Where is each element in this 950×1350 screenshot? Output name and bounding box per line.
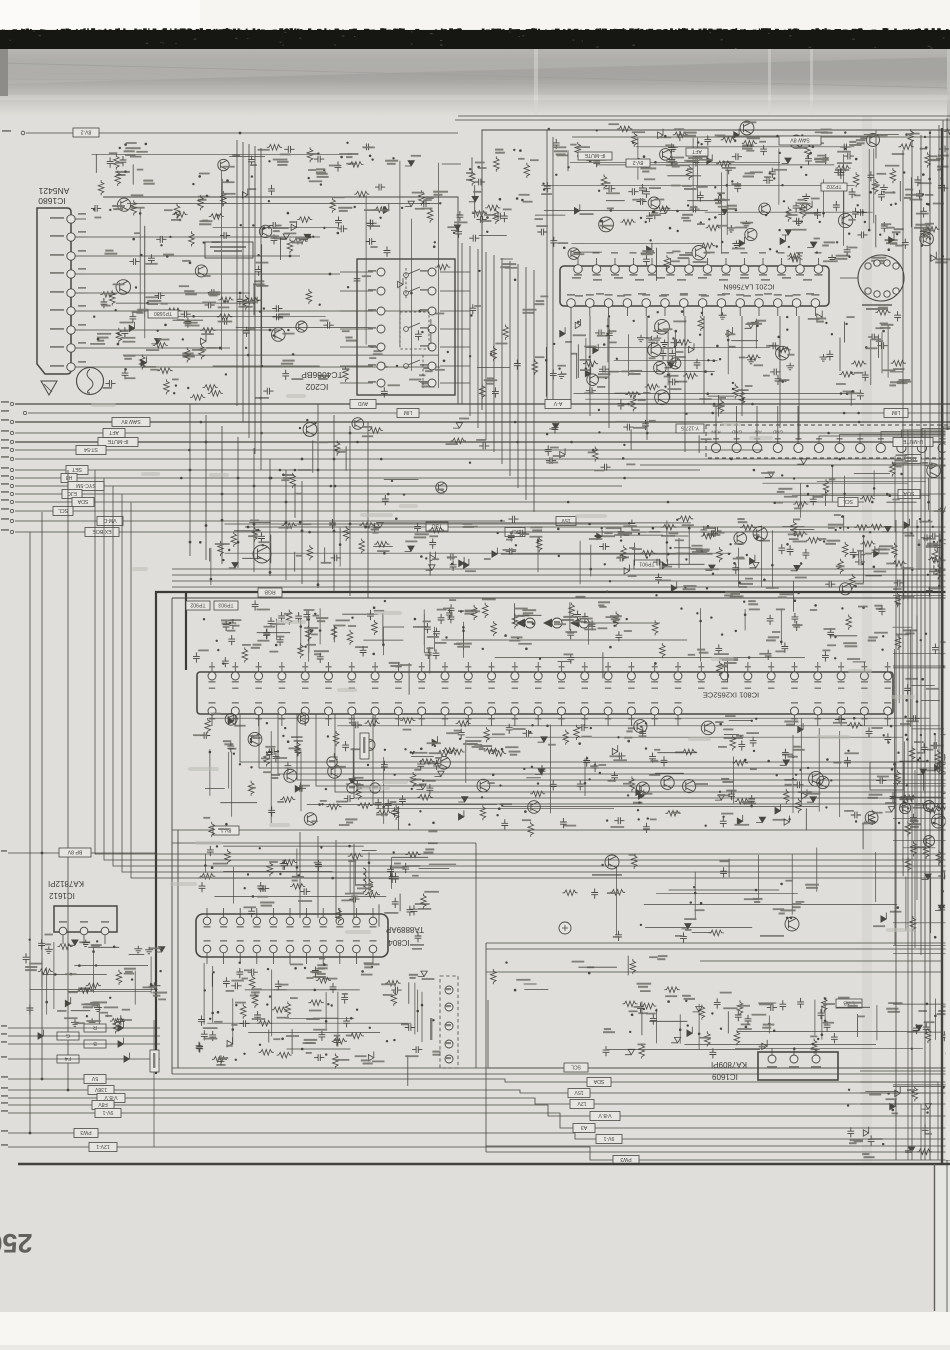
pin L5 IC202	[377, 343, 385, 351]
pin bottom 27 IC801	[814, 707, 822, 715]
pin L4 IC202	[377, 325, 385, 333]
bus right label SCL	[838, 498, 858, 507]
component cluster above middle 1	[199, 516, 943, 576]
bus wire y486	[15, 485, 622, 487]
pin bottom 12 IC201	[774, 299, 783, 308]
pin bottom 11 IC801	[441, 707, 449, 715]
bus wire y413	[28, 412, 950, 414]
bus left tick y422	[10, 420, 13, 423]
cap C8304	[415, 932, 422, 942]
component cluster below IC801	[193, 713, 950, 850]
bus left tick y459	[10, 457, 13, 460]
pin R3 IC202	[428, 307, 436, 315]
bus junction dots	[627, 403, 630, 406]
pin top 10 IC801	[418, 672, 426, 680]
right edge stubs	[893, 782, 950, 784]
component cluster below IC201	[550, 307, 911, 417]
wire 8V-2 rail	[26, 132, 458, 134]
pin bottom 4 IC801	[278, 707, 286, 715]
diode D418	[38, 1030, 43, 1040]
connector Y/C pin 5	[445, 1055, 453, 1063]
pin top 3 IC201	[611, 265, 620, 274]
component cluster bottom mid parts	[563, 854, 950, 943]
signal arrows 15 16 17	[516, 619, 525, 628]
connector pin 3	[753, 443, 762, 452]
label BP 8V	[59, 848, 91, 857]
pin bottom 8 IC804	[319, 945, 327, 953]
pin top 4 IC201	[629, 265, 638, 274]
component cluster IC801 top pin parts	[193, 596, 888, 695]
component cluster around IC1609	[603, 992, 950, 1059]
bus label SDA	[72, 498, 94, 507]
bus left tick y532	[10, 530, 13, 533]
top white strip	[0, 0, 950, 29]
transistor Q412	[785, 917, 799, 931]
transistor Q609	[605, 855, 619, 869]
wire RGB y1044	[8, 1043, 160, 1045]
pin top 8 IC804	[319, 917, 327, 925]
component cluster above IC804	[199, 842, 457, 926]
bus label AVD	[350, 400, 376, 409]
rail 9V-1	[8, 1113, 950, 1128]
label B box	[84, 1040, 106, 1048]
right strip extra verticals	[895, 520, 897, 1160]
pin 3 IC1609	[812, 1055, 820, 1063]
pin top 2 IC804	[220, 917, 228, 925]
bus left tick y404	[10, 402, 13, 405]
wire grid below IC801	[209, 717, 940, 824]
connector Y/C pin 2	[445, 1003, 453, 1011]
pin top 18 IC801	[604, 672, 612, 680]
bus right label 15V	[556, 517, 576, 526]
connector pin 9	[876, 443, 885, 452]
pin bottom 9 IC804	[336, 945, 344, 953]
op-amp IC1680 body	[37, 208, 71, 374]
pin top 13 IC201	[796, 265, 805, 274]
connector pin 11	[917, 443, 926, 452]
bus left tick y470	[10, 468, 13, 471]
bus wire y459	[15, 458, 950, 460]
pin top 10 IC804	[353, 917, 361, 925]
bottom right vertical rule	[934, 1164, 936, 1311]
right edge vertical wires	[902, 150, 904, 862]
circled node 14	[347, 783, 357, 793]
label TP202	[821, 183, 847, 191]
IC201 bottom risers	[570, 316, 572, 404]
pin top 16 IC801	[558, 672, 566, 680]
label F4 box	[57, 1055, 79, 1063]
connector pin 1	[711, 443, 720, 452]
label IF-MUTE	[578, 152, 612, 160]
coil L803	[363, 868, 366, 892]
pin bottom 6 IC804	[286, 945, 294, 953]
wire grid IC801 pins top	[277, 608, 805, 661]
component cluster IC1680 upper left	[96, 142, 265, 219]
diode D419	[118, 1022, 123, 1032]
pin bottom 8 IC801	[371, 707, 379, 715]
bus label VM-D	[97, 517, 123, 526]
vertical label 12V-1	[150, 1050, 159, 1072]
connector pin 12	[938, 443, 947, 452]
video IC801 IX2652CE body	[197, 672, 893, 714]
connector Y/C dashed	[440, 976, 458, 1068]
long horizontals mid	[172, 568, 950, 570]
bus label ST-54	[76, 446, 106, 455]
wire bundle E left risers	[95, 470, 950, 854]
pin bottom 1 IC801	[208, 707, 216, 715]
pin bottom 19 IC801	[627, 707, 635, 715]
pin top 30 IC801	[884, 672, 892, 680]
right rail staircase	[860, 1071, 947, 1160]
pin bottom 3 IC201	[604, 299, 613, 308]
component cluster above IC202	[266, 149, 565, 260]
pin bottom 2 IC201	[586, 299, 595, 308]
pin top 7 IC801	[348, 672, 356, 680]
pin top 6 IC201	[666, 265, 675, 274]
long vertical x68	[67, 470, 69, 1090]
bus wire y470	[15, 469, 700, 471]
bus wire y450	[15, 449, 763, 451]
pin bottom 10 IC801	[418, 707, 426, 715]
bus TSC wire	[245, 526, 950, 528]
bus label EX BOE	[85, 528, 119, 537]
pin bottom 28 IC801	[837, 707, 845, 715]
bus wire y433	[15, 432, 950, 434]
pin bottom 29 IC801	[860, 707, 868, 715]
bus wire y404	[15, 403, 950, 405]
circled node 13	[327, 757, 337, 767]
pin top 1 IC804	[203, 917, 211, 925]
right column loop box	[870, 762, 904, 790]
pin top 1 IC801	[208, 672, 216, 680]
bus right label U-MUTE	[893, 438, 933, 447]
component cluster IC1680 periphery	[90, 142, 450, 401]
label 8V-2	[73, 128, 99, 137]
rail risers	[488, 1000, 950, 1068]
wire verticals mid	[299, 832, 301, 918]
pin top 25 IC801	[767, 672, 775, 680]
wire grid above IC201	[541, 135, 942, 254]
connector pin 2	[732, 443, 741, 452]
gray scan gradient band	[0, 49, 950, 116]
component cluster IC1609 lower right	[847, 1086, 945, 1158]
bus label EJC	[62, 490, 82, 499]
bottom white strip	[0, 1312, 950, 1345]
pin bottom 4 IC804	[253, 945, 261, 953]
wire grid above middle	[210, 520, 942, 587]
transistor Q601	[253, 545, 271, 563]
right column transistor Q pair	[924, 801, 935, 812]
black header bar	[0, 30, 950, 49]
pin top 3 IC801	[255, 672, 263, 680]
pin R4 IC202	[428, 325, 436, 333]
pin bottom 15 IC801	[534, 707, 542, 715]
pin L1 IC202	[377, 268, 385, 276]
pin L3 IC202	[377, 307, 385, 315]
label RGB	[258, 588, 282, 597]
pin top 5 IC201	[648, 265, 657, 274]
connector pin 6	[814, 443, 823, 452]
connector pin 5	[794, 443, 803, 452]
connector pin 10	[897, 443, 906, 452]
pin top 8 IC201	[703, 265, 712, 274]
bus wire y511	[15, 510, 950, 512]
pin bottom 3 IC801	[255, 707, 263, 715]
pin bottom 13 IC201	[792, 299, 801, 308]
pin top 20 IC801	[651, 672, 659, 680]
bus label IF-MUTE	[98, 438, 138, 447]
component cluster above middle right	[602, 524, 950, 612]
label G box	[57, 1032, 79, 1040]
pin top 2 IC801	[231, 672, 239, 680]
pin bottom 9 IC201	[717, 299, 726, 308]
bus left tick y494	[10, 492, 13, 495]
pin 4 IC1680	[67, 307, 75, 315]
pin top 11 IC804	[369, 917, 377, 925]
pin R2 IC202	[428, 287, 436, 295]
connector riser wires	[715, 406, 717, 443]
label SCL rail	[564, 1063, 588, 1072]
bus wire y422	[15, 421, 950, 423]
component cluster IC1612 periphery	[23, 934, 168, 1034]
component cluster right of IC202	[469, 259, 548, 399]
rail 12V-1	[8, 1147, 950, 1160]
wire BP8V	[8, 852, 59, 854]
connector Y/C pin 4	[445, 1040, 453, 1048]
pin top 24 IC801	[744, 672, 752, 680]
label TP901	[634, 560, 660, 569]
wire top pair right	[458, 115, 950, 117]
frame top-right block	[482, 130, 950, 410]
faint vertical scan streak	[862, 116, 872, 1164]
component cluster above IC201	[541, 121, 950, 281]
rail 5V	[8, 1079, 950, 1082]
pin bottom 14 IC201	[811, 299, 820, 308]
connector GRJ2 dashed outline	[706, 425, 948, 458]
bus wire y532	[15, 531, 442, 533]
pin top 10 IC201	[740, 265, 749, 274]
pin top 3 IC804	[236, 917, 244, 925]
pin 6 IC1680	[67, 270, 75, 278]
bus wire y494	[15, 493, 950, 495]
pin bottom 3 IC804	[236, 945, 244, 953]
connector pin 7	[835, 443, 844, 452]
bus label AFT	[103, 429, 125, 438]
label 8V-1	[213, 826, 239, 835]
pin bottom 5 IC801	[301, 707, 309, 715]
pin bottom 2 IC804	[220, 945, 228, 953]
right column diode	[922, 874, 932, 879]
pin bottom 10 IC804	[353, 945, 361, 953]
pin bottom 11 IC804	[369, 945, 377, 953]
pin 1 IC1609	[768, 1055, 776, 1063]
delay coil T1690	[77, 368, 104, 395]
wire grid bottom mid	[617, 848, 944, 936]
pin bottom 21 IC801	[674, 707, 682, 715]
label SAW 8V	[779, 136, 821, 145]
bottom thick rule	[18, 1163, 950, 1166]
ground symbol IC1680	[41, 381, 57, 395]
wire grid IC1612 parts	[30, 942, 158, 1015]
connector Y/C pin 1	[445, 986, 453, 994]
pin 7 IC1680	[67, 252, 75, 260]
bus right label LIM	[884, 409, 908, 418]
bus right label H5	[905, 455, 921, 464]
frame top-left block	[103, 197, 458, 404]
bus wire y478	[15, 477, 950, 479]
connector Y/C pin 3	[445, 1022, 453, 1030]
middle block border	[172, 598, 950, 1074]
pin bottom 9 IC801	[394, 707, 402, 715]
bus left tick y502	[10, 500, 13, 503]
wire grid below IC804	[204, 963, 423, 1050]
left dark scan blob	[0, 49, 8, 96]
bus label H8	[61, 474, 77, 483]
pin L6 IC202	[377, 362, 385, 370]
pin bottom 20 IC801	[651, 707, 659, 715]
wire grid IC1680 block	[92, 154, 441, 388]
box SYC PNG ADJ	[205, 242, 253, 258]
pin top 1 IC201	[574, 265, 583, 274]
pin top 14 IC801	[511, 672, 519, 680]
bus left tick y450	[10, 448, 13, 451]
rail V-B.V	[8, 1098, 950, 1104]
wire vertical x368	[367, 422, 369, 598]
rail F8V	[8, 1105, 950, 1116]
wire bundle D IC801 outputs	[240, 714, 950, 762]
chroma IC804 TA8889AP body	[196, 914, 388, 957]
pin bottom 7 IC804	[303, 945, 311, 953]
diode D201	[782, 158, 792, 163]
pin 5 IC1680	[67, 289, 75, 297]
pin bottom 18 IC801	[604, 707, 612, 715]
pin L2 IC202	[377, 287, 385, 295]
component cluster right strip parts	[890, 543, 950, 877]
pin top 12 IC201	[777, 265, 786, 274]
pin bottom 10 IC201	[736, 299, 745, 308]
pin bottom 5 IC201	[642, 299, 651, 308]
label 8V-2b	[626, 159, 650, 167]
thick RGB wire	[156, 592, 950, 1074]
long vertical x30	[29, 532, 31, 1133]
component cluster bus zone parts left	[281, 418, 489, 518]
circled node 15	[370, 783, 380, 793]
component cluster IC1680 inner left	[91, 205, 266, 390]
pin R1 IC202	[428, 268, 436, 276]
wire bundle C bus-to-middle verticals	[189, 404, 191, 556]
faint scan ghosts	[91, 394, 915, 934]
diode D601	[405, 546, 415, 551]
bus right label SCP	[505, 528, 525, 537]
connector pin 8	[856, 443, 865, 452]
bus left tick y433	[10, 431, 13, 434]
pin top 5 IC801	[301, 672, 309, 680]
pin top 17 IC801	[581, 672, 589, 680]
bus right label SOA	[898, 490, 920, 499]
pin bottom 16 IC801	[558, 707, 566, 715]
rail PW3	[8, 1133, 950, 1139]
pin top 14 IC201	[814, 265, 823, 274]
pin L7 IC202	[377, 379, 385, 387]
pin bottom 8 IC201	[698, 299, 707, 308]
pin R5 IC202	[428, 343, 436, 351]
pin top 4 IC804	[253, 917, 261, 925]
diode D417	[118, 1038, 123, 1048]
pin top 11 IC201	[759, 265, 768, 274]
connector pin 4	[773, 443, 782, 452]
pin 2 IC1609	[790, 1055, 798, 1063]
pin 1 IC1680	[67, 363, 75, 371]
pin bottom 2 IC801	[231, 707, 239, 715]
label Y-127/5	[676, 424, 704, 433]
dashed switch box IC202	[400, 312, 429, 349]
diode D410	[430, 552, 435, 562]
bus left tick y486	[10, 484, 13, 487]
pin R7 IC202	[428, 379, 436, 387]
pin 3 IC1612	[101, 927, 109, 935]
wire grid IC1609 parts	[607, 999, 937, 1050]
bus wire y502	[15, 501, 864, 503]
pin top 6 IC804	[286, 917, 294, 925]
bus label SAW 8V	[112, 418, 150, 427]
pin top 7 IC201	[685, 265, 694, 274]
label L-AB	[836, 999, 862, 1008]
bus label SCL	[53, 507, 73, 516]
label AFT	[686, 148, 708, 156]
pin top 21 IC801	[674, 672, 682, 680]
wire RGB y1036	[8, 1035, 160, 1037]
pin top 7 IC804	[303, 917, 311, 925]
bus label A-V	[545, 400, 571, 409]
component cluster bus zone parts mid	[545, 409, 712, 472]
bus left tick y521	[10, 519, 13, 522]
pin 2 IC1612	[80, 927, 88, 935]
pin bottom 17 IC801	[581, 707, 589, 715]
diode D415	[124, 1053, 129, 1063]
page right border bar	[941, 128, 943, 1164]
pin bottom 6 IC801	[325, 707, 333, 715]
pin top 15 IC801	[534, 672, 542, 680]
component cluster below IC804	[196, 958, 441, 1086]
pin top 6 IC801	[325, 672, 333, 680]
pin 9 IC1680	[67, 215, 75, 223]
pin bottom 6 IC201	[661, 299, 670, 308]
pin bottom 30 IC801	[884, 707, 892, 715]
pin top 13 IC801	[488, 672, 496, 680]
pin top 12 IC801	[464, 672, 472, 680]
bus label LIM	[397, 409, 419, 418]
pin top 28 IC801	[837, 672, 845, 680]
wire grid above IC804	[198, 845, 393, 904]
pin 8 IC1680	[67, 233, 75, 241]
pin bottom 1 IC804	[203, 945, 211, 953]
IC201 interior pin names	[572, 277, 581, 279]
pin 1 IC1612	[59, 927, 67, 935]
long vertical x42	[41, 512, 43, 1079]
labels TP902 TP903	[186, 601, 210, 610]
pin bottom 11 IC201	[755, 299, 764, 308]
pin R6 IC202	[428, 362, 436, 370]
bus extra y465	[640, 464, 950, 466]
tuner stub	[840, 277, 858, 279]
pin top 19 IC801	[627, 672, 635, 680]
pin top 22 IC801	[697, 672, 705, 680]
pin bottom 5 IC804	[270, 945, 278, 953]
bus left tick y413	[23, 411, 26, 414]
IF IC201 LA7566N body	[560, 266, 829, 306]
bus left tick y442	[10, 440, 13, 443]
pin bottom 1 IC201	[567, 299, 576, 308]
